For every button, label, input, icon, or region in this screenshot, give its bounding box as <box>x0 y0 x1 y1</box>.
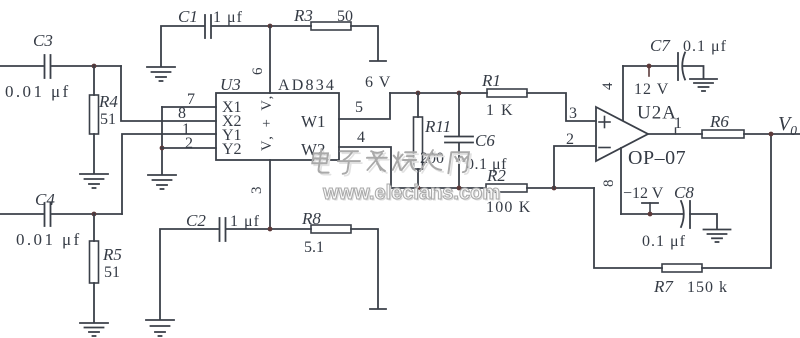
wire R6 to Vo <box>744 133 800 135</box>
wire X1 stub <box>162 106 216 108</box>
svg-text:3: 3 <box>249 187 265 195</box>
op-amp minus sign <box>599 147 610 149</box>
svg-text:Y2: Y2 <box>222 141 242 158</box>
node junction C6 bottom <box>457 186 462 191</box>
wire R5 bottom lead <box>93 283 95 322</box>
svg-text:C7: C7 <box>650 36 671 55</box>
wire op-amp V+ pin4 riser <box>622 66 624 120</box>
svg-text:OP–07: OP–07 <box>628 147 686 169</box>
IC U3 AD834 box <box>216 93 339 160</box>
ground (C8) <box>704 230 731 243</box>
svg-text:R4: R4 <box>98 92 118 111</box>
terminal -12V <box>642 203 658 216</box>
svg-text:0.1 μf: 0.1 μf <box>683 38 727 55</box>
terminal 12V <box>647 64 652 76</box>
svg-text:6: 6 <box>250 67 266 75</box>
capacitor C1 <box>205 15 211 38</box>
svg-text:50: 50 <box>337 8 353 25</box>
svg-text:5.1: 5.1 <box>304 239 324 256</box>
ground (C7) <box>690 79 717 91</box>
svg-text:3: 3 <box>569 105 577 122</box>
svg-text:R5: R5 <box>102 245 122 264</box>
svg-text:51: 51 <box>100 111 116 128</box>
wire C7 to ground <box>684 66 704 78</box>
capacitor C4 <box>45 203 51 226</box>
svg-text:R3: R3 <box>293 6 313 25</box>
svg-text:12 V: 12 V <box>634 81 669 98</box>
node junction -in <box>552 186 557 191</box>
svg-text:V, + V,: V, + V, <box>259 93 275 151</box>
wire output to R6 <box>648 133 702 135</box>
svg-text:2: 2 <box>185 135 193 152</box>
node junction Vo <box>769 132 774 137</box>
capacitor C3 <box>45 55 51 78</box>
svg-text:C2: C2 <box>186 211 206 230</box>
svg-text:C4: C4 <box>35 190 55 209</box>
capacitor C2 <box>220 218 226 241</box>
wire bottom-left input to C4 <box>0 213 43 215</box>
capacitor C7 <box>678 53 685 81</box>
node junction pin3/C2 <box>268 227 273 232</box>
svg-text:W1: W1 <box>301 112 326 131</box>
wire R3 to 6V <box>351 26 378 60</box>
svg-text:0.01 μf: 0.01 μf <box>5 82 71 101</box>
capacitor C8 <box>681 201 690 228</box>
wire -in riser <box>554 146 596 188</box>
svg-text:R8: R8 <box>301 209 321 228</box>
wire R8 to terminal <box>351 229 378 308</box>
wire -12V rail <box>621 213 683 215</box>
wire Y2 stub <box>162 147 216 149</box>
ground (R4) <box>80 174 108 188</box>
wire X2 riser <box>121 66 216 121</box>
svg-text:1 μf: 1 μf <box>230 213 260 230</box>
wire R4 bottom lead <box>93 134 95 173</box>
svg-text:U3: U3 <box>220 75 241 94</box>
node junction R11 top <box>416 91 421 96</box>
svg-text:4: 4 <box>600 82 616 90</box>
watermark url <box>322 182 502 206</box>
svg-text:AD834: AD834 <box>278 77 336 94</box>
svg-text:C3: C3 <box>33 31 53 50</box>
svg-text:1 μf: 1 μf <box>213 9 243 26</box>
svg-text:R11: R11 <box>424 117 451 136</box>
svg-text:1 K: 1 K <box>486 102 514 119</box>
op-amp plus sign <box>599 117 610 128</box>
wire C1 rail left + ground drop <box>161 26 204 66</box>
svg-text:0.01 μf: 0.01 μf <box>16 230 82 249</box>
wire R2 to feedback node <box>527 187 594 189</box>
resistor R5 <box>90 241 99 283</box>
capacitor C6 <box>445 93 473 188</box>
resistor R6 <box>702 130 744 138</box>
node junction Y2 <box>160 146 165 151</box>
svg-text:R7: R7 <box>653 277 674 296</box>
wire R4 top lead <box>93 66 95 95</box>
wire C2 rail left + ground drop <box>160 229 218 319</box>
op-amp U2A <box>596 107 648 161</box>
svg-text:7: 7 <box>187 91 195 108</box>
resistor R11 <box>414 93 423 188</box>
wire C8 to ground <box>690 214 717 228</box>
svg-text:R1: R1 <box>481 71 501 90</box>
wire C4 to Y1 riser <box>52 213 122 215</box>
terminal (R8 return) <box>370 308 386 310</box>
resistor R4 <box>90 95 99 134</box>
watermark chinese text <box>311 149 471 176</box>
node junction C6 top <box>457 91 462 96</box>
wire top-left input to C3 <box>0 65 43 67</box>
svg-text:1: 1 <box>674 115 682 132</box>
resistor R7 <box>662 264 702 272</box>
wire C3 to X2 riser <box>52 65 121 67</box>
wire C2 to R8 <box>226 228 311 230</box>
svg-text:R6: R6 <box>709 112 729 131</box>
wire X1/Y2 ground riser <box>161 107 163 174</box>
resistor R1 <box>487 89 527 97</box>
svg-text:4: 4 <box>357 129 365 146</box>
wire pin 3 riser <box>269 160 271 229</box>
svg-text:8: 8 <box>178 105 186 122</box>
svg-text:C1: C1 <box>178 7 198 26</box>
wire top rail W1 to R1 <box>390 92 487 94</box>
node junction pin6 <box>268 24 273 29</box>
svg-text:51: 51 <box>104 264 120 281</box>
ground (C1) <box>147 67 175 81</box>
wire 12V rail <box>623 65 677 67</box>
ground (R5) <box>80 323 108 336</box>
pin 1 tick <box>675 128 677 134</box>
wire R1 to op-amp +in <box>527 93 596 121</box>
svg-text:C8: C8 <box>674 183 694 202</box>
terminal 6V <box>370 60 386 62</box>
wire bottom rail W2 to R2 <box>391 187 486 189</box>
svg-text:V0: V0 <box>778 113 797 138</box>
wire W1 pin5 <box>339 93 390 119</box>
resistor R3 <box>311 22 351 30</box>
node junction R4 top <box>92 64 97 69</box>
svg-text:−12 V: −12 V <box>623 185 664 202</box>
wire C1 to R3 <box>212 25 311 27</box>
wire op-amp V- pin8 riser <box>620 148 622 214</box>
svg-text:5: 5 <box>355 99 363 116</box>
wire R5 top lead <box>93 214 95 241</box>
ground (X1 Y2) <box>148 175 176 189</box>
node junction R5 top <box>92 212 97 217</box>
wire feedback left riser <box>594 188 662 268</box>
svg-text:8: 8 <box>601 180 617 188</box>
wire W2 pin4 <box>339 147 391 188</box>
svg-text:www.elecians.com: www.elecians.com <box>322 182 500 204</box>
svg-text:6 V: 6 V <box>365 74 391 91</box>
wire Y1 riser <box>122 134 216 214</box>
wire pin 6 riser <box>269 26 271 93</box>
svg-text:2: 2 <box>566 131 574 148</box>
resistor R2 <box>486 184 527 192</box>
resistor R8 <box>311 225 351 233</box>
wire R7 to output <box>702 134 771 268</box>
ground (C2) <box>146 320 174 336</box>
svg-text:U2A: U2A <box>637 103 677 124</box>
svg-text:150 k: 150 k <box>687 279 728 296</box>
svg-text:C6: C6 <box>475 131 495 150</box>
svg-text:0.1 μf: 0.1 μf <box>642 233 686 250</box>
node junction R11 bottom <box>416 186 421 191</box>
